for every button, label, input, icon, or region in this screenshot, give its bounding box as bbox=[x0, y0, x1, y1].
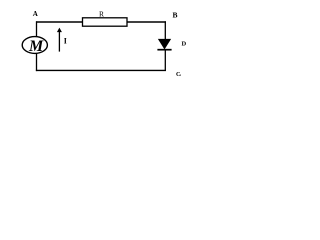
wire top-left vertical from A corner to source top bbox=[36, 21, 38, 37]
wire B down to diode anode bbox=[164, 21, 166, 40]
svg-text:M: M bbox=[28, 38, 44, 55]
svg-text:D: D bbox=[182, 41, 187, 48]
svg-text:B: B bbox=[173, 11, 178, 20]
resistor R bbox=[83, 18, 128, 26]
period after C bbox=[180, 75, 181, 76]
svg-text:A: A bbox=[33, 10, 38, 18]
svg-text:I: I bbox=[64, 37, 67, 46]
wire bottom-left vertical from source to bottom wire bbox=[36, 53, 38, 71]
wire R to B bbox=[127, 21, 166, 23]
wire bottom horizontal bbox=[36, 69, 166, 71]
wire diode cathode down to C corner bbox=[164, 50, 166, 71]
diode D bbox=[157, 39, 171, 50]
wire top-left horizontal A to R bbox=[36, 21, 83, 23]
current arrow I bbox=[57, 28, 62, 52]
source M (AC generator) bbox=[22, 37, 47, 55]
svg-text:C: C bbox=[176, 71, 180, 78]
svg-text:R: R bbox=[99, 9, 104, 18]
